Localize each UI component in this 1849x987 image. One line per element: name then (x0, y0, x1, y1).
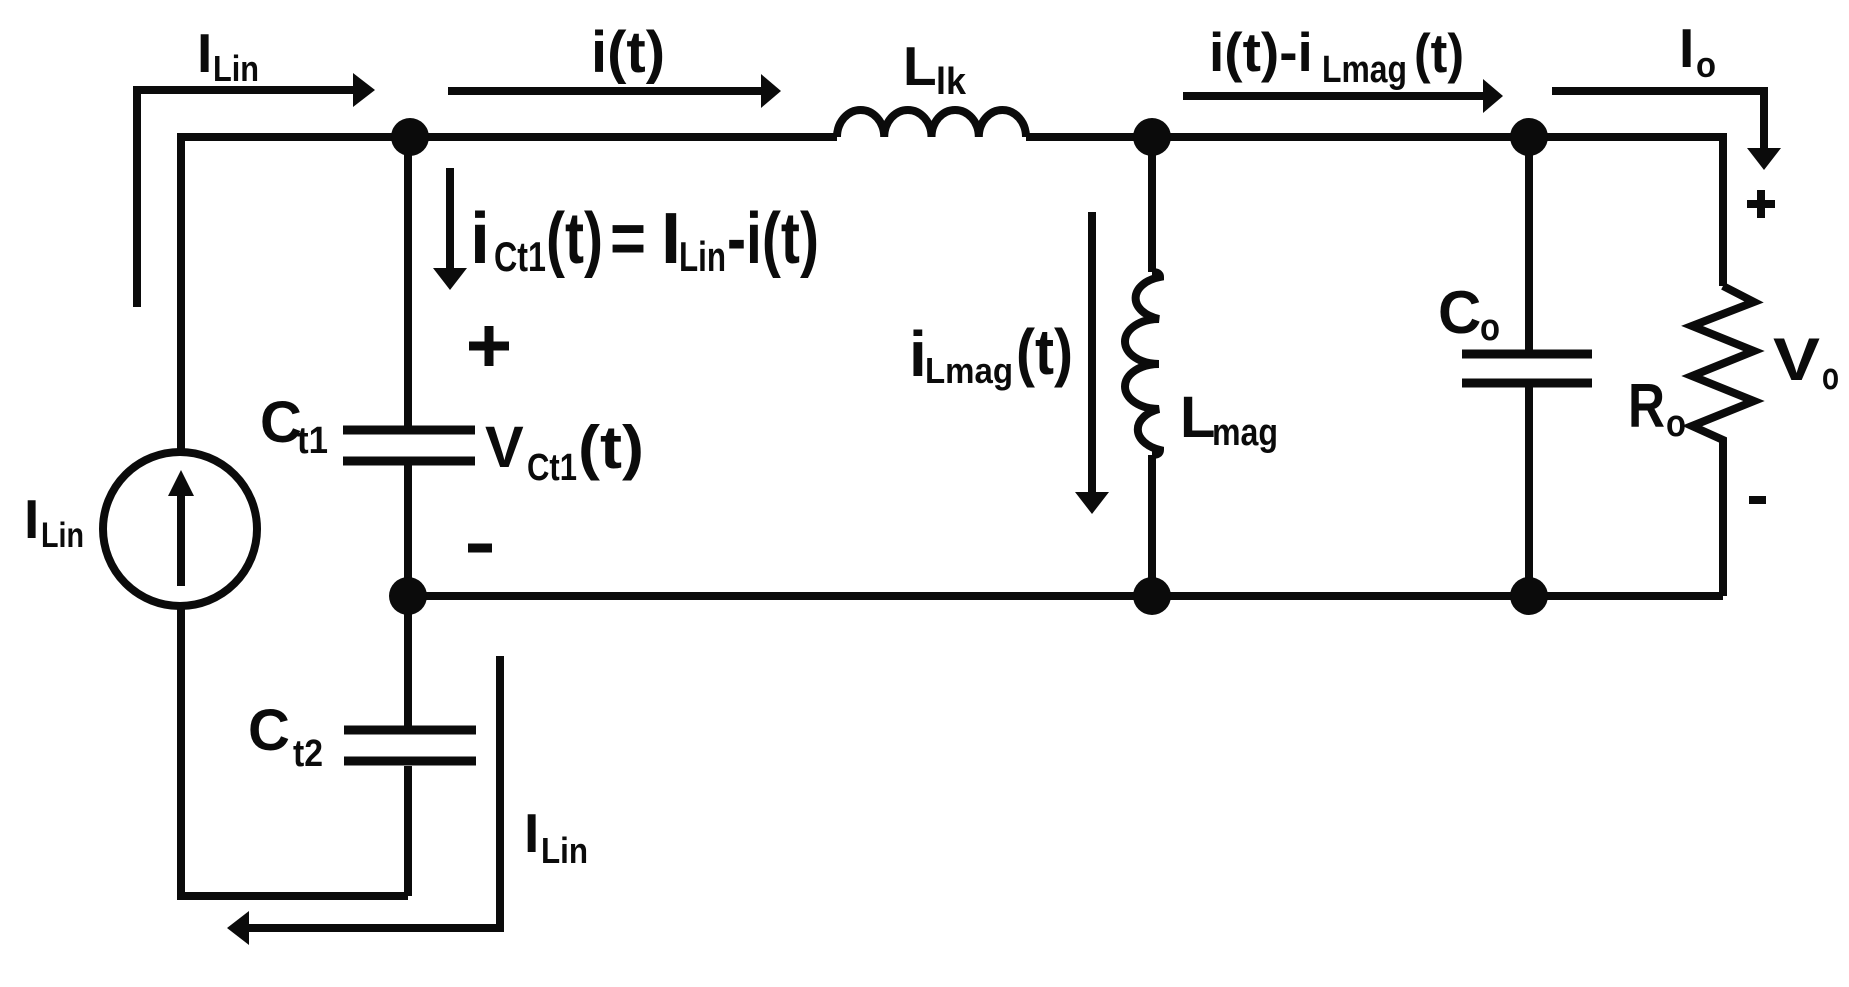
capacitor Ct1 lower lead (404, 465, 412, 596)
capacitor Co lower lead (1525, 387, 1533, 596)
node top-left (391, 118, 429, 156)
arrowhead ILin top-left (353, 73, 375, 107)
inductor Lmag lower lead (1148, 455, 1156, 596)
arrow ILin bottom shaft (249, 656, 500, 928)
svg-text:i(t): i(t) (591, 20, 665, 85)
arrowhead iLmag (1075, 492, 1109, 514)
arrowhead iCt1 (433, 268, 467, 290)
wire top bus left segment (181, 137, 837, 452)
node bottom-middle (1133, 577, 1171, 615)
inductor Lmag upper lead (1148, 137, 1156, 272)
arrowhead i(t) (761, 74, 781, 108)
node top-middle (1133, 118, 1171, 156)
capacitor Ct1 upper lead (404, 137, 412, 426)
wire source bottom to bottom-left corner (181, 606, 408, 896)
current source I_Lin circle (103, 452, 257, 606)
inductor Lmag coil (1125, 272, 1160, 455)
capacitor Ct2 upper lead (404, 596, 412, 726)
node top-right (1510, 118, 1548, 156)
arrowhead Io (1747, 148, 1781, 170)
minus sign Vo (1749, 496, 1766, 504)
capacitor Co plates (1462, 354, 1592, 383)
plus sign Ct1 (469, 326, 509, 366)
capacitor Ct1 plates (343, 430, 475, 461)
arrow i(t) shaft (448, 87, 761, 95)
arrow i(t)-iLmag(t) shaft (1183, 92, 1483, 100)
capacitor Co upper lead (1525, 137, 1533, 350)
arrowhead current source (168, 470, 194, 496)
arrowhead i(t)-iLmag(t) (1483, 79, 1503, 113)
node bottom-right (1510, 577, 1548, 615)
arrow iCt1 shaft (446, 168, 454, 268)
capacitor Ct2 lower lead (404, 766, 412, 896)
resistor Ro (1692, 286, 1754, 596)
inductor Llk (837, 110, 1026, 137)
arrowhead ILin bottom (227, 911, 249, 945)
node bottom-left (389, 577, 427, 615)
capacitor Ct2 plates (344, 730, 476, 761)
current source internal arrow shaft (177, 492, 185, 586)
arrow Io shaft (1552, 91, 1764, 148)
arrow ILin top-left shaft (137, 90, 355, 307)
wire top bus right segment (1026, 137, 1723, 286)
arrow iLmag shaft (1088, 212, 1096, 492)
wire bottom bus (408, 592, 1723, 600)
minus sign Ct1 (468, 544, 492, 553)
plus sign Vo (1747, 190, 1775, 218)
